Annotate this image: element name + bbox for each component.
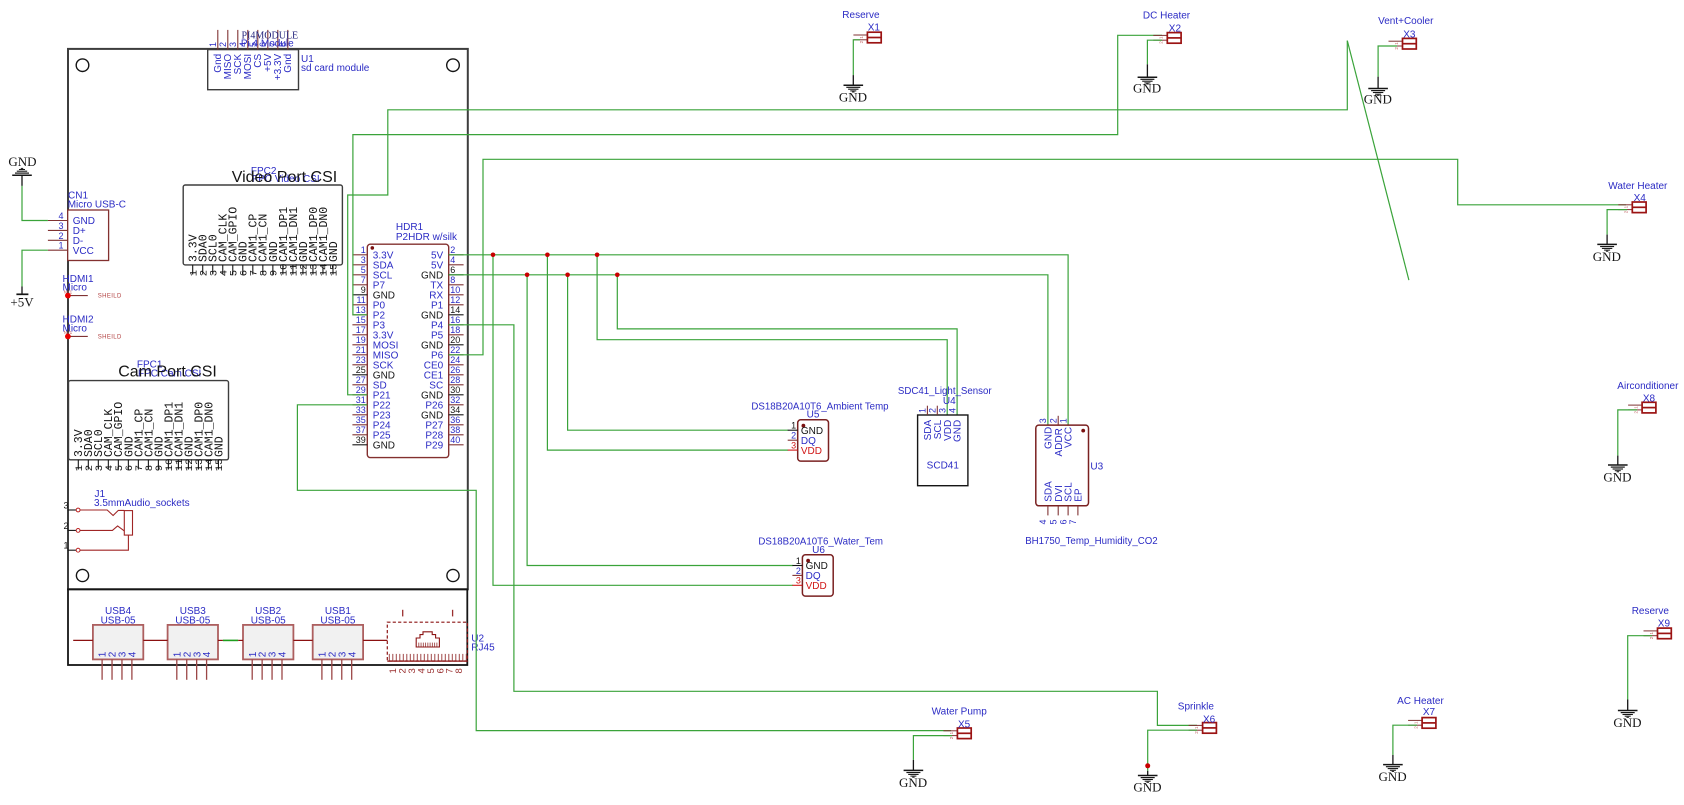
wire GND branch to U4 GND: [617, 275, 957, 415]
ground X9 stem: [1627, 700, 1629, 711]
FPC2 pin 8 stub: [262, 265, 264, 275]
svg-text:4: 4: [202, 651, 213, 657]
U1 pin 7 stub: [277, 30, 279, 50]
svg-text:Airconditioner: Airconditioner: [1617, 381, 1679, 392]
svg-text:3: 3: [228, 42, 238, 47]
RJ45 top stub right: [452, 610, 454, 617]
ground X6: [1138, 775, 1158, 777]
connector X2 pin 2 stub: [1153, 39, 1167, 41]
svg-text:SHEILD: SHEILD: [98, 294, 122, 300]
svg-text:2: 2: [796, 566, 801, 576]
svg-text:+5V: +5V: [10, 294, 34, 309]
U6 pin 3 stub: [792, 584, 802, 586]
Raspberry Pi board outline: [68, 49, 468, 589]
HDR1 pin 29 stub: [352, 394, 367, 396]
FPC2 body: [183, 185, 342, 265]
HDR1 pin 26 stub: [449, 374, 464, 376]
RJ45 U2 dashed body: [387, 622, 467, 661]
svg-text:35: 35: [356, 415, 366, 425]
USB2 pin 1 stub: [251, 659, 253, 679]
svg-text:Pi 4 Module: Pi 4 Module: [241, 38, 294, 49]
FPC1 pin 5 stub: [117, 460, 119, 470]
CN1 pin 1 stub: [48, 249, 68, 251]
svg-text:4: 4: [127, 651, 138, 657]
svg-text:38: 38: [450, 425, 460, 435]
svg-text:VCC: VCC: [1064, 427, 1075, 448]
FPC1 pin 11 stub: [177, 460, 179, 470]
sd card module U1 body: [208, 50, 299, 90]
HDR1 pin 14 stub: [449, 314, 464, 316]
svg-text:11: 11: [356, 295, 365, 305]
svg-text:33: 33: [356, 405, 366, 415]
U5 pin 2 stub: [788, 439, 798, 441]
FPC2 pin 6 stub: [242, 265, 244, 275]
connector X7 body: [1422, 718, 1436, 729]
ground X8: [1608, 464, 1628, 466]
svg-text:P29: P29: [425, 440, 443, 451]
svg-text:8: 8: [454, 668, 465, 673]
U5 pin 3 stub: [788, 449, 798, 451]
svg-text:1: 1: [58, 241, 63, 251]
connector X5 body: [957, 728, 971, 739]
svg-text:34: 34: [450, 405, 460, 415]
wire CN1 pin1 VCC to +5V: [22, 250, 48, 286]
USB3 pin 1 stub: [176, 659, 178, 679]
svg-text:U4: U4: [943, 396, 956, 407]
HDR1 pin 16 stub: [449, 324, 464, 326]
HDMI1 shield pin stub: [68, 295, 88, 297]
ground X1 stem: [852, 75, 854, 85]
U6 pin1 marker dot: [806, 559, 810, 563]
sensor U4 body: [918, 415, 968, 486]
ground X7 stem: [1392, 755, 1394, 765]
wire net 5V : HDR1 pin2 to U3 VCC: [449, 255, 1068, 425]
svg-text:5: 5: [361, 265, 366, 275]
J1 tip contact (pin 3): [80, 510, 124, 516]
svg-text:4: 4: [58, 211, 63, 221]
HDMI1 connection dot: [65, 293, 71, 299]
svg-text:1: 1: [918, 408, 928, 413]
FPC1 body: [69, 381, 229, 460]
svg-text:Cam Port CSI: Cam Port CSI: [118, 364, 217, 381]
connector X9 pin 1 stub: [1644, 630, 1658, 632]
FPC1 pin 13 stub: [197, 460, 199, 470]
USB1 pin 1 stub: [321, 659, 323, 679]
connector X6 body: [1203, 723, 1217, 734]
USB2 pin 3 stub: [271, 659, 273, 679]
svg-text:3: 3: [796, 576, 801, 586]
wire GND branch to U6 pin1: [527, 275, 793, 566]
ground X8 stem: [1617, 456, 1619, 465]
svg-text:1: 1: [796, 556, 801, 566]
sensor U3 body: [1036, 425, 1089, 506]
ground X6 stem: [1147, 771, 1149, 776]
CN1 pin 3 stub: [48, 229, 68, 231]
USB1 pin 3 stub: [341, 659, 343, 679]
svg-text:2: 2: [450, 245, 455, 255]
mounting hole bottom-right: [447, 569, 459, 581]
usb interconnect wire segment 4: [293, 639, 312, 641]
svg-text:Micro USB-C: Micro USB-C: [68, 200, 126, 211]
USB2 pin 2 stub: [261, 659, 263, 679]
svg-text:30: 30: [450, 385, 460, 395]
usb interconnect wire segment 5: [363, 639, 387, 641]
ground X4: [1597, 243, 1617, 245]
svg-text:10: 10: [450, 285, 460, 295]
USB3 pin 4 stub: [206, 659, 208, 679]
wire net P21 : HDR1 pin29 up and right: [348, 41, 1348, 395]
U3 pin 7 stub: [1077, 506, 1079, 516]
HDR1 pin 1 stub: [352, 254, 367, 256]
HDR1 body: [367, 244, 448, 457]
svg-text:4: 4: [947, 408, 957, 413]
CN1 body: [68, 210, 109, 261]
HDMI2 shield pin stub: [68, 335, 88, 337]
HDR1 pin 3 stub: [352, 264, 367, 266]
J1 pin 2 stub: [68, 529, 76, 531]
svg-text:3: 3: [58, 221, 63, 231]
usb interconnect wire segment 2: [143, 639, 167, 641]
svg-text:X9: X9: [1658, 619, 1671, 630]
svg-text:15: 15: [356, 315, 366, 325]
wire X8 pin2 to ground: [1618, 410, 1637, 456]
U3 pin1 marker dot: [1081, 429, 1085, 433]
U3 pin 5 stub: [1057, 506, 1059, 516]
wire net P2 : HDR1 pin13 to X2 DC Heater pin1: [353, 35, 1162, 315]
svg-text:2: 2: [1048, 418, 1058, 423]
svg-text:25: 25: [356, 365, 366, 375]
wire net GND : HDR1 pin6 to U3 GND: [449, 275, 1048, 425]
svg-text:1: 1: [63, 541, 68, 551]
svg-text:X2: X2: [1169, 23, 1182, 34]
svg-text:28: 28: [450, 375, 460, 385]
svg-text:Video Port CSI: Video Port CSI: [232, 169, 338, 186]
svg-text:GND: GND: [1133, 80, 1161, 95]
FPC1 pin 9 stub: [157, 460, 159, 470]
FPC1 pin 8 stub: [147, 460, 149, 470]
svg-text:BH1750_Temp_Humidity_CO2: BH1750_Temp_Humidity_CO2: [1025, 536, 1157, 547]
ground X3 stem: [1377, 77, 1379, 89]
HDR1 pin 30 stub: [449, 394, 464, 396]
wire X6 pin2 to ground: [1148, 730, 1197, 771]
junction dot GND net x=567.6: [565, 273, 570, 278]
connector X4 pin 1 stub: [1618, 204, 1632, 206]
svg-text:2: 2: [218, 42, 228, 47]
svg-text:15: 15: [214, 459, 226, 472]
HDR1 pin 33 stub: [352, 414, 367, 416]
svg-text:Water Pump: Water Pump: [932, 706, 988, 717]
HDR1 pin 2 stub: [449, 254, 464, 256]
svg-text:27: 27: [356, 375, 366, 385]
wire diagonal segment from P21 net: [1347, 41, 1409, 281]
FPC1 pin 1 stub: [77, 460, 79, 470]
HDR1 pin 25 stub: [352, 374, 367, 376]
USB4 pin 4 stub: [131, 659, 133, 679]
RJ45 top stub left: [402, 610, 404, 617]
connector X8 body: [1642, 402, 1656, 413]
U3 pin 6 stub: [1067, 506, 1069, 516]
U1 pin 4 stub: [247, 30, 249, 50]
HDR1 pin 40 stub: [449, 444, 464, 446]
HDR1 pin 21 stub: [352, 354, 367, 356]
svg-text:VDD: VDD: [806, 581, 827, 592]
FPC2 pin 2 stub: [202, 265, 204, 275]
svg-text:GND: GND: [328, 241, 341, 262]
FPC2 pin 4 stub: [222, 265, 224, 275]
svg-text:9: 9: [361, 285, 366, 295]
svg-text:4: 4: [450, 255, 455, 265]
connector X5 pin 1 stub: [943, 730, 957, 732]
HDR1 pin 24 stub: [449, 364, 464, 366]
svg-text:8: 8: [450, 275, 455, 285]
svg-text:X6: X6: [1203, 714, 1216, 725]
connector X9 pin 2 stub: [1644, 635, 1658, 637]
svg-text:VDD: VDD: [801, 446, 822, 457]
svg-text:sd card module: sd card module: [301, 63, 370, 74]
svg-text:X3: X3: [1403, 30, 1416, 41]
wire CN1 pin4 to GND: [22, 186, 48, 221]
HDR1 pin 7 stub: [352, 284, 367, 286]
J1 ring contact (pin 2): [80, 526, 124, 531]
connector X3 body: [1403, 38, 1417, 49]
svg-text:23: 23: [356, 355, 366, 365]
sensor U6 body: [802, 555, 833, 596]
J1 pin 2 open circle: [76, 529, 80, 533]
svg-text:1: 1: [208, 42, 218, 47]
svg-text:X7: X7: [1423, 707, 1436, 718]
HDMI2 connection dot: [65, 334, 71, 340]
HDR1 pin 18 stub: [449, 334, 464, 336]
FPC2 pin 13 stub: [312, 265, 314, 275]
svg-text:GND: GND: [1364, 92, 1392, 107]
FPC2 pin 10 stub: [282, 265, 284, 275]
usb interconnect wire segment 1: [73, 639, 93, 641]
power symbol +5V stem: [21, 287, 23, 295]
svg-text:14: 14: [450, 305, 460, 315]
wire X7 pin2 to ground: [1393, 725, 1417, 755]
USB2 pin 4 stub: [281, 659, 283, 679]
wire net P6 : HDR1 pin22 to X4 Water Heater pin1: [449, 159, 1626, 354]
USB/ethernet board strip outline: [68, 589, 467, 665]
wire X9 pin2 to ground: [1628, 636, 1652, 700]
HDR1 pin 8 stub: [449, 284, 464, 286]
connector X9 body: [1658, 628, 1672, 639]
svg-text:16: 16: [450, 315, 460, 325]
svg-text:RJ45: RJ45: [471, 643, 495, 654]
ground X2 stem: [1146, 64, 1148, 77]
junction dot 5V net x=597.1: [595, 253, 600, 258]
J1 pin 1 stub: [68, 549, 76, 551]
U5 pin 1 stub: [788, 429, 798, 431]
ground X7: [1383, 764, 1403, 766]
connector USB3 body: [168, 625, 218, 660]
ground X9: [1618, 710, 1638, 712]
power symbol GND (top-left) earth glyph: [12, 174, 32, 176]
svg-text:6: 6: [450, 265, 455, 275]
svg-text:GND: GND: [1379, 769, 1407, 784]
USB4 pin 2 stub: [111, 659, 113, 679]
connector X1 pin 1 stub: [853, 34, 867, 36]
usb interconnect wire segment 3 (stub-green-stub): [218, 639, 223, 641]
svg-text:GND: GND: [953, 420, 964, 442]
svg-text:4: 4: [278, 651, 289, 657]
svg-text:Sprinkle: Sprinkle: [1178, 702, 1215, 713]
svg-text:P2HDR w/silk: P2HDR w/silk: [396, 232, 458, 243]
svg-text:26: 26: [450, 365, 460, 375]
ground X5: [904, 769, 924, 771]
svg-text:3: 3: [937, 408, 947, 413]
svg-text:GND: GND: [213, 436, 226, 457]
connector X8 pin 2 stub: [1628, 409, 1642, 411]
HDR1 pin 9 stub: [352, 294, 367, 296]
HDR1 pin 5 stub: [352, 274, 367, 276]
ground X5 stem: [912, 760, 914, 771]
U1 pin 2 stub: [227, 30, 229, 50]
svg-text:Reserve: Reserve: [842, 10, 880, 21]
wire X2 pin2 to ground: [1147, 40, 1162, 64]
svg-text:5: 5: [1048, 519, 1058, 524]
wire 5V branch to U6 VDD: [493, 255, 793, 586]
svg-text:U5: U5: [807, 410, 820, 421]
U3 pin 4 stub: [1047, 506, 1049, 516]
HDR1 pin 6 stub: [449, 274, 464, 276]
FPC2 pin 7 stub: [252, 265, 254, 275]
connector USB1 body: [313, 625, 363, 660]
svg-text:GND: GND: [1593, 249, 1621, 264]
mounting hole top-left: [76, 59, 89, 72]
GND symbol stem: [21, 175, 23, 186]
HDR1 pin 11 stub: [352, 304, 367, 306]
wire X1 pin2 to ground: [853, 40, 860, 75]
svg-text:6: 6: [1058, 519, 1068, 524]
junction dot 5V net x=493.0: [491, 253, 496, 258]
U6 pin 1 stub: [792, 565, 802, 567]
HDR1 pin 17 stub: [352, 334, 367, 336]
RJ45 plug icon teeth: [418, 643, 420, 647]
svg-text:7: 7: [1068, 519, 1078, 524]
svg-text:GND: GND: [1603, 470, 1631, 485]
U5 pin1 marker dot: [802, 424, 806, 428]
HDR1 pin 20 stub: [449, 344, 464, 346]
svg-text:3: 3: [361, 255, 366, 265]
svg-text:GND: GND: [8, 154, 36, 169]
FPC2 pin 1 stub: [192, 265, 194, 275]
RJ45 bottom castellation line: [387, 660, 467, 662]
svg-text:AC Heater: AC Heater: [1397, 696, 1444, 707]
HDR1 pin 10 stub: [449, 294, 464, 296]
svg-text:20: 20: [450, 335, 460, 345]
HDR1 pin 34 stub: [449, 414, 464, 416]
svg-text:22: 22: [450, 345, 460, 355]
svg-text:4: 4: [1038, 519, 1048, 524]
svg-text:1: 1: [1058, 418, 1068, 423]
HDR1 pin 36 stub: [449, 424, 464, 426]
HDR1 pin 27 stub: [352, 384, 367, 386]
wire GND branch to U5 pin1: [568, 275, 789, 430]
USB3 pin 3 stub: [196, 659, 198, 679]
FPC1 pin 2 stub: [87, 460, 89, 470]
U6 pin 2 stub: [792, 574, 802, 576]
svg-text:19: 19: [356, 335, 366, 345]
svg-text:3: 3: [1038, 418, 1048, 423]
HDR1 pin1 marker dot: [371, 246, 375, 250]
svg-text:21: 21: [356, 345, 366, 355]
mounting hole top-right: [447, 59, 460, 72]
connector X5 pin 2 stub: [943, 735, 957, 737]
svg-text:Water Heater: Water Heater: [1608, 181, 1668, 192]
svg-text:EP: EP: [1074, 488, 1085, 502]
connector X4 pin 2 stub: [1618, 209, 1632, 211]
svg-text:Reserve: Reserve: [1632, 606, 1670, 617]
svg-text:DS18B20A10T6_Ambient Temp: DS18B20A10T6_Ambient Temp: [751, 401, 888, 412]
svg-text:31: 31: [356, 395, 366, 405]
FPC2 pin 12 stub: [302, 265, 304, 275]
FPC2 pin 15 stub: [332, 265, 334, 275]
svg-text:36: 36: [450, 415, 460, 425]
ground X2: [1138, 76, 1158, 78]
svg-text:1: 1: [361, 245, 366, 255]
connector X2 pin 1 stub: [1153, 34, 1167, 36]
svg-text:2: 2: [928, 408, 938, 413]
connector USB4 body: [93, 625, 143, 660]
connector X1 pin 2 stub: [853, 39, 867, 41]
J1 pin 3 stub: [68, 509, 76, 511]
svg-text:29: 29: [356, 385, 366, 395]
connector X4 body: [1632, 202, 1646, 213]
FPC1 pin 12 stub: [187, 460, 189, 470]
svg-text:3: 3: [63, 500, 68, 510]
mounting hole bottom-left: [76, 569, 88, 581]
ground X4 stem: [1606, 235, 1608, 245]
HDR1 pin 22 stub: [449, 354, 464, 356]
connector X8 pin 1 stub: [1628, 404, 1642, 406]
svg-text:3.5mmAudio_sockets: 3.5mmAudio_sockets: [94, 498, 190, 509]
HDR1 pin 28 stub: [449, 384, 464, 386]
HDR1 pin 37 stub: [352, 434, 367, 436]
junction dot above X6 ground: [1145, 763, 1150, 768]
junction dot 5V net x=547.4: [545, 253, 550, 258]
connector X7 pin 2 stub: [1408, 724, 1422, 726]
HDR1 pin 39 stub: [352, 444, 367, 446]
FPC2 pin 3 stub: [212, 265, 214, 275]
FPC1 pin 10 stub: [167, 460, 169, 470]
U4 pin 2 stub: [936, 406, 938, 415]
RJ45 bottom comb: [388, 654, 390, 661]
svg-text:4: 4: [347, 651, 358, 657]
svg-text:GND: GND: [899, 775, 927, 790]
svg-text:2: 2: [63, 521, 68, 531]
svg-text:18: 18: [450, 325, 460, 335]
svg-text:SHEILD: SHEILD: [98, 334, 122, 340]
U1 pin 1 stub: [217, 30, 219, 50]
HDR1 pin 19 stub: [352, 344, 367, 346]
svg-text:13: 13: [356, 305, 366, 315]
HDR1 pin 12 stub: [449, 304, 464, 306]
svg-text:X1: X1: [868, 23, 881, 34]
svg-text:X4: X4: [1634, 193, 1647, 204]
USB3 pin 2 stub: [186, 659, 188, 679]
CN1 pin 4 stub: [48, 220, 68, 222]
svg-text:SCD41: SCD41: [927, 461, 960, 472]
FPC1 pin 15 stub: [217, 460, 219, 470]
U1 pin 5 stub: [257, 30, 259, 50]
HDR1 pin 13 stub: [352, 314, 367, 316]
wire net P4 : HDR1 pin16 to X6 Sprinkle pin1: [449, 325, 1197, 726]
U1 pin 8 stub: [287, 30, 289, 50]
connector X7 pin 1 stub: [1408, 719, 1422, 721]
FPC1 pin 4 stub: [107, 460, 109, 470]
connector X3 pin 2 stub: [1389, 45, 1403, 47]
